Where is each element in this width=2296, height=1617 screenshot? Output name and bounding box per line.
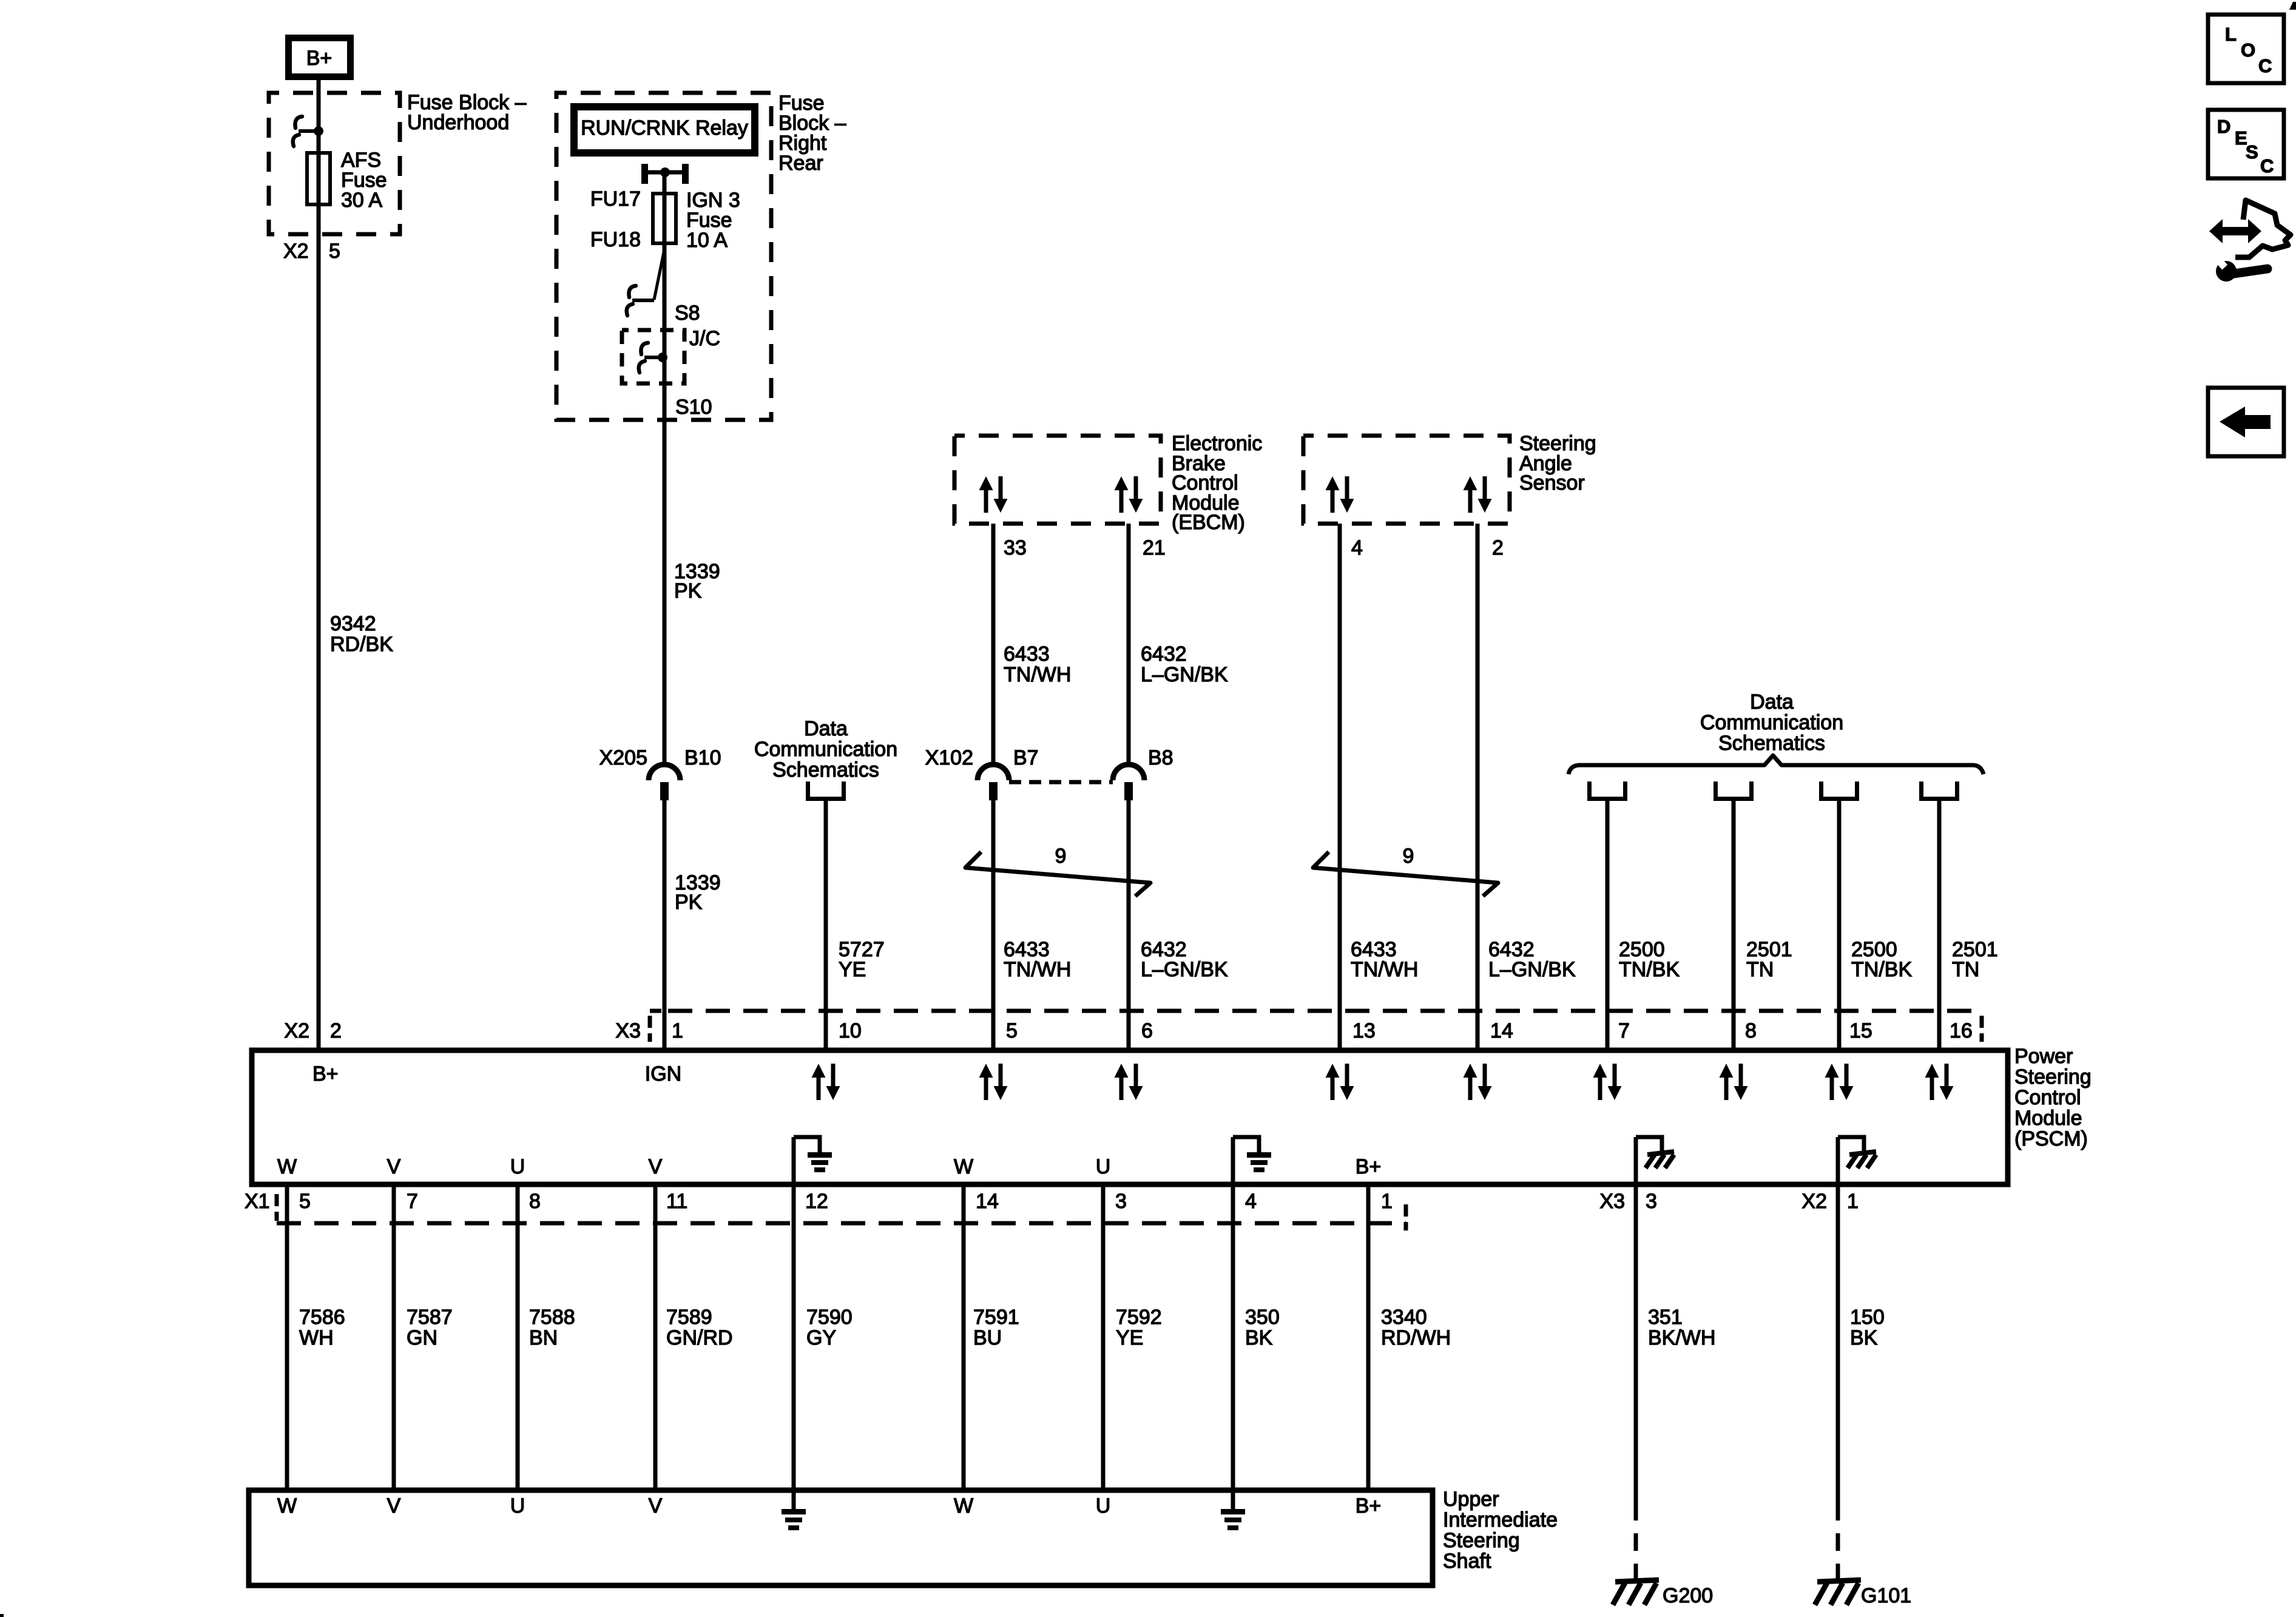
- svg-text:BN: BN: [529, 1326, 558, 1349]
- svg-text:9342: 9342: [330, 612, 376, 635]
- svg-text:350: 350: [1245, 1306, 1280, 1329]
- svg-text:B+: B+: [306, 47, 333, 70]
- svg-text:B10: B10: [684, 746, 721, 769]
- svg-text:WH: WH: [299, 1326, 334, 1349]
- svg-text:33: 33: [1004, 536, 1027, 559]
- svg-text:Schematics: Schematics: [772, 758, 879, 781]
- svg-text:2: 2: [1492, 536, 1504, 559]
- svg-text:PK: PK: [674, 579, 702, 603]
- svg-text:IGN: IGN: [645, 1062, 681, 1085]
- svg-text:PK: PK: [675, 891, 703, 914]
- svg-text:7592: 7592: [1116, 1306, 1162, 1329]
- svg-text:TN/BK: TN/BK: [1619, 958, 1680, 981]
- svg-text:6432: 6432: [1141, 643, 1187, 666]
- svg-text:Data: Data: [804, 717, 848, 740]
- svg-text:GN: GN: [407, 1326, 437, 1349]
- svg-text:7587: 7587: [407, 1306, 453, 1329]
- svg-text:X3: X3: [615, 1019, 641, 1042]
- svg-text:30 A: 30 A: [341, 189, 382, 212]
- svg-text:W: W: [277, 1155, 297, 1178]
- svg-text:W: W: [277, 1494, 297, 1517]
- svg-text:U: U: [1096, 1155, 1111, 1178]
- svg-text:Communication: Communication: [754, 738, 897, 761]
- svg-text:D: D: [2217, 116, 2230, 137]
- svg-text:W: W: [954, 1155, 973, 1178]
- svg-text:Control: Control: [2014, 1086, 2081, 1109]
- svg-text:V: V: [387, 1494, 401, 1517]
- svg-text:BU: BU: [973, 1326, 1002, 1349]
- svg-text:X2: X2: [283, 240, 309, 263]
- svg-text:BK: BK: [1850, 1326, 1878, 1349]
- svg-text:1: 1: [672, 1019, 683, 1042]
- svg-text:7: 7: [1618, 1019, 1630, 1042]
- svg-text:12: 12: [805, 1190, 828, 1213]
- svg-text:Upper: Upper: [1443, 1488, 1499, 1511]
- svg-text:TN/WH: TN/WH: [1004, 958, 1071, 981]
- svg-text:14: 14: [1490, 1019, 1513, 1042]
- svg-text:Data: Data: [1750, 690, 1794, 714]
- svg-text:RD/WH: RD/WH: [1381, 1326, 1451, 1349]
- svg-text:1: 1: [1381, 1190, 1393, 1213]
- svg-text:TN/WH: TN/WH: [1351, 958, 1418, 981]
- svg-text:U: U: [510, 1155, 525, 1178]
- svg-text:W: W: [954, 1494, 973, 1517]
- svg-text:YE: YE: [839, 958, 866, 981]
- svg-text:X2: X2: [1801, 1190, 1827, 1213]
- svg-text:Schematics: Schematics: [1718, 732, 1825, 755]
- svg-text:16: 16: [1950, 1019, 1973, 1042]
- svg-text:9: 9: [1403, 845, 1414, 868]
- svg-text:Steering: Steering: [1443, 1529, 1520, 1552]
- svg-text:8: 8: [529, 1190, 541, 1213]
- svg-text:L–GN/BK: L–GN/BK: [1141, 663, 1228, 686]
- svg-text:(EBCM): (EBCM): [1172, 511, 1245, 534]
- svg-text:1: 1: [1847, 1190, 1859, 1213]
- svg-text:10 A: 10 A: [686, 229, 728, 252]
- svg-text:11: 11: [666, 1190, 687, 1213]
- svg-text:Steering: Steering: [2014, 1065, 2092, 1089]
- svg-text:9: 9: [1055, 845, 1067, 868]
- svg-text:3340: 3340: [1381, 1306, 1427, 1329]
- svg-text:Module: Module: [2014, 1107, 2082, 1130]
- svg-text:L–GN/BK: L–GN/BK: [1488, 958, 1576, 981]
- svg-text:Communication: Communication: [1700, 711, 1843, 734]
- svg-text:X2: X2: [284, 1019, 309, 1042]
- svg-text:RUN/CRNK Relay: RUN/CRNK Relay: [581, 116, 748, 140]
- svg-text:BK: BK: [1245, 1326, 1273, 1349]
- svg-text:Underhood: Underhood: [407, 111, 509, 134]
- svg-text:O: O: [2241, 39, 2255, 61]
- svg-text:X205: X205: [599, 746, 647, 769]
- svg-text:V: V: [387, 1155, 401, 1178]
- svg-text:V: V: [649, 1494, 663, 1517]
- svg-text:7: 7: [407, 1190, 418, 1213]
- svg-text:YE: YE: [1116, 1326, 1143, 1349]
- svg-text:2: 2: [330, 1019, 342, 1042]
- svg-text:Sensor: Sensor: [1519, 471, 1585, 495]
- svg-text:3: 3: [1115, 1190, 1127, 1213]
- svg-text:C: C: [2258, 55, 2272, 76]
- svg-text:7590: 7590: [806, 1306, 853, 1329]
- svg-text:TN: TN: [1952, 958, 1979, 981]
- svg-text:GY: GY: [806, 1326, 836, 1349]
- svg-text:FU18: FU18: [590, 228, 641, 251]
- svg-text:Rear: Rear: [778, 152, 823, 175]
- svg-text:G200: G200: [1663, 1584, 1713, 1607]
- svg-text:6433: 6433: [1004, 643, 1050, 666]
- svg-text:5: 5: [329, 240, 340, 263]
- svg-text:8: 8: [1745, 1019, 1757, 1042]
- svg-text:Power: Power: [2014, 1045, 2073, 1068]
- svg-text:351: 351: [1648, 1306, 1683, 1329]
- svg-text:J/C: J/C: [689, 327, 720, 350]
- svg-text:6: 6: [1141, 1019, 1153, 1042]
- svg-text:B+: B+: [1356, 1155, 1382, 1178]
- svg-text:B+: B+: [1356, 1494, 1382, 1517]
- svg-text:S8: S8: [675, 302, 700, 325]
- svg-text:GN/RD: GN/RD: [666, 1326, 733, 1349]
- svg-text:7588: 7588: [529, 1306, 575, 1329]
- svg-text:10: 10: [839, 1019, 862, 1042]
- svg-text:5: 5: [1006, 1019, 1018, 1042]
- svg-text:7589: 7589: [666, 1306, 712, 1329]
- svg-text:Shaft: Shaft: [1443, 1550, 1491, 1573]
- svg-text:21: 21: [1143, 536, 1166, 559]
- svg-text:TN/WH: TN/WH: [1004, 663, 1071, 686]
- svg-text:L: L: [2225, 24, 2237, 45]
- svg-text:X102: X102: [925, 746, 973, 769]
- svg-text:X3: X3: [1599, 1190, 1625, 1213]
- svg-text:U: U: [510, 1494, 525, 1517]
- svg-text:150: 150: [1850, 1306, 1885, 1329]
- svg-text:TN: TN: [1746, 958, 1774, 981]
- svg-text:7586: 7586: [299, 1306, 345, 1329]
- svg-text:U: U: [1096, 1494, 1111, 1517]
- svg-text:14: 14: [976, 1190, 999, 1213]
- svg-text:BK/WH: BK/WH: [1648, 1326, 1715, 1349]
- svg-text:5: 5: [299, 1190, 311, 1213]
- svg-text:3: 3: [1646, 1190, 1657, 1213]
- svg-text:X1: X1: [245, 1190, 270, 1213]
- svg-text:15: 15: [1849, 1019, 1872, 1042]
- svg-text:(PSCM): (PSCM): [2014, 1127, 2088, 1150]
- svg-text:L–GN/BK: L–GN/BK: [1141, 958, 1228, 981]
- svg-text:C: C: [2260, 155, 2274, 177]
- svg-text:7591: 7591: [973, 1306, 1019, 1329]
- svg-text:B7: B7: [1013, 746, 1039, 769]
- svg-text:13: 13: [1352, 1019, 1376, 1042]
- svg-text:S: S: [2246, 141, 2258, 163]
- svg-text:4: 4: [1351, 536, 1363, 559]
- svg-text:RD/BK: RD/BK: [330, 633, 393, 656]
- svg-text:FU17: FU17: [590, 187, 641, 211]
- svg-text:G101: G101: [1861, 1584, 1911, 1607]
- svg-text:B8: B8: [1148, 746, 1173, 769]
- svg-text:B+: B+: [312, 1062, 339, 1085]
- svg-text:V: V: [649, 1155, 663, 1178]
- svg-text:Intermediate: Intermediate: [1443, 1508, 1558, 1531]
- svg-text:4: 4: [1245, 1190, 1257, 1213]
- svg-text:TN/BK: TN/BK: [1851, 958, 1912, 981]
- svg-text:S10: S10: [675, 396, 712, 419]
